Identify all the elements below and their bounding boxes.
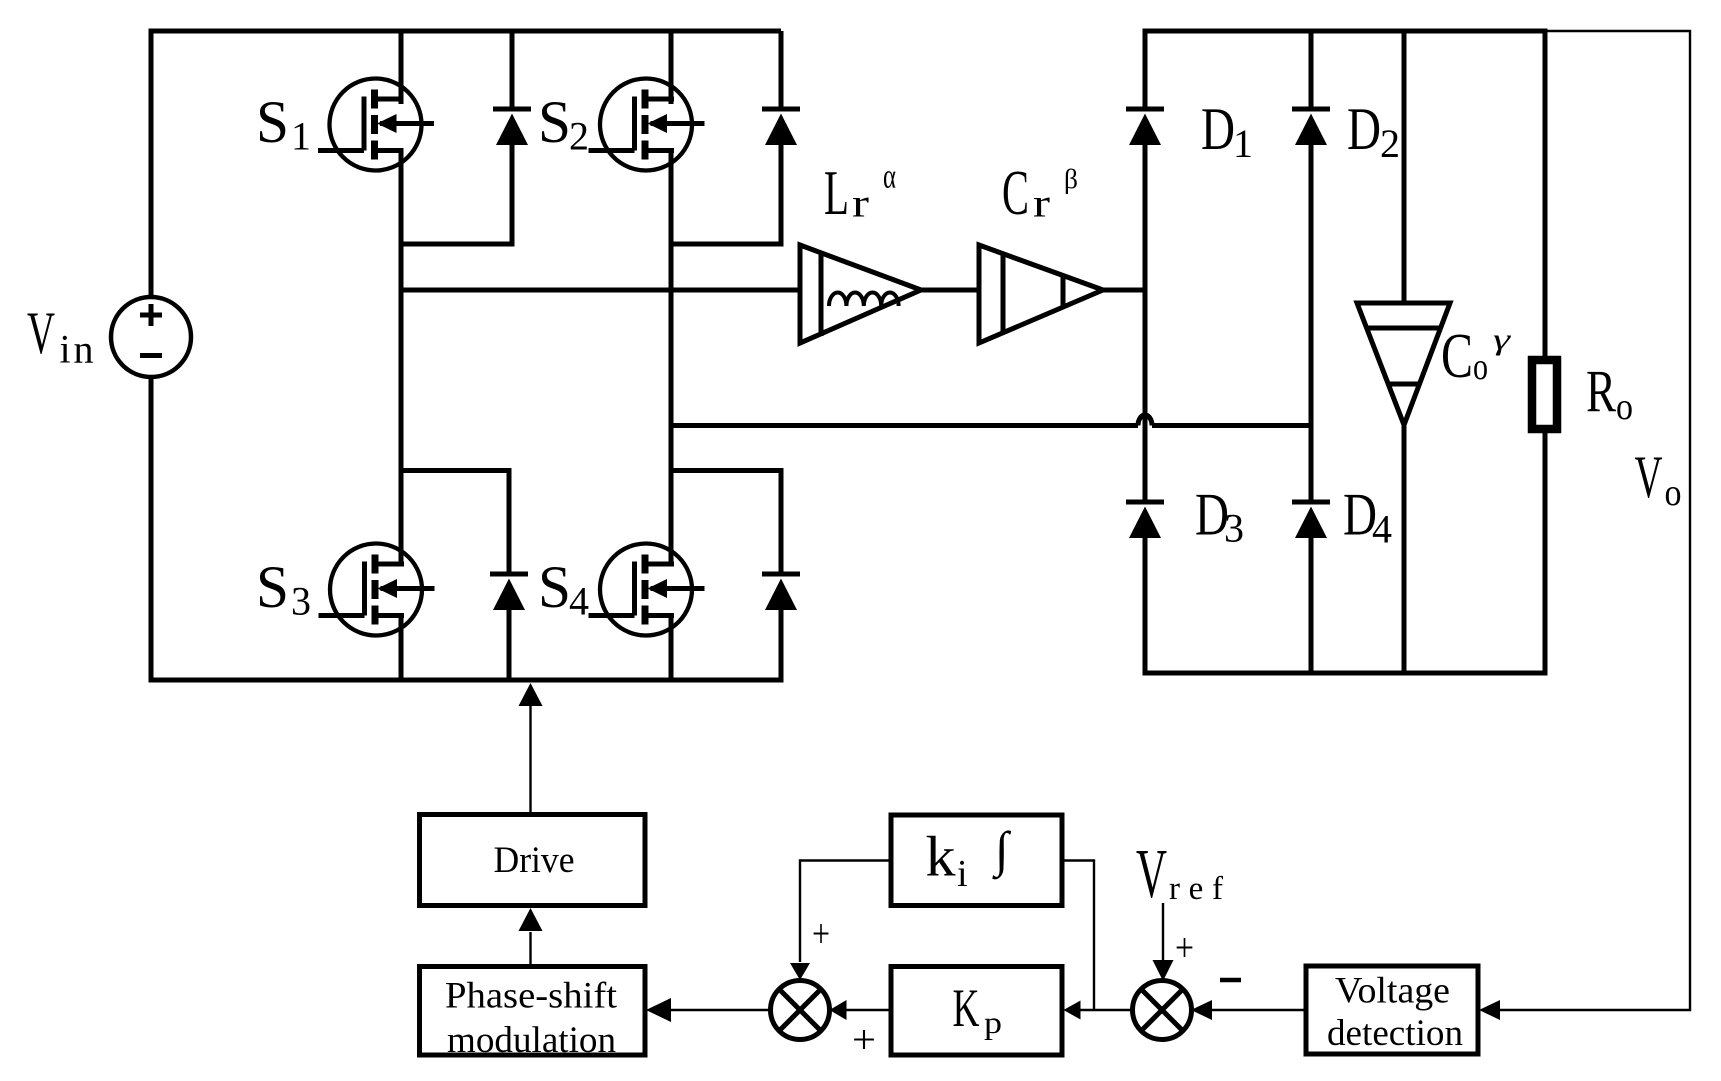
svg-text:γ: γ xyxy=(1493,323,1512,356)
block Drive xyxy=(420,815,646,906)
wire S4 source xyxy=(669,616,674,681)
antiparallel diode of S4 xyxy=(762,574,800,610)
wire Vin leg lower xyxy=(149,375,154,683)
svg-text:p: p xyxy=(984,1004,1002,1040)
svg-text:in: in xyxy=(60,327,94,372)
wire Co top lead xyxy=(1402,31,1407,305)
svg-text:C: C xyxy=(1002,157,1029,228)
svg-text:r: r xyxy=(852,181,869,226)
svg-text:o: o xyxy=(1665,472,1682,514)
wire E1 to Phase-shift block xyxy=(646,998,771,1022)
label D4 xyxy=(1343,482,1392,552)
svg-text:D: D xyxy=(1347,96,1381,162)
svg-text:K: K xyxy=(953,978,980,1038)
svg-text:S: S xyxy=(256,554,289,620)
wire S2 drain xyxy=(669,31,674,101)
mosfet S1 xyxy=(318,79,434,171)
capacitor Co (fractional-order symbol) xyxy=(1357,303,1450,425)
label S2 xyxy=(538,89,589,159)
svg-text:R: R xyxy=(1586,359,1616,425)
resistor Ro xyxy=(1532,360,1557,429)
svg-text:L: L xyxy=(824,158,849,228)
wire D1 cathode lead xyxy=(1143,31,1148,107)
voltage source Vin xyxy=(111,297,191,377)
antiparallel diode of S3 xyxy=(490,574,528,610)
wire node B return line right part xyxy=(1152,423,1311,428)
svg-text:Phase-shift: Phase-shift xyxy=(445,976,618,1017)
label minus at E2 right xyxy=(1220,978,1241,983)
wire Kp output to E1 xyxy=(830,1000,892,1020)
wire DS1 anode to S1 leg xyxy=(401,242,515,247)
wire bottom bus rectifier xyxy=(1143,671,1548,676)
label Vo xyxy=(1635,444,1682,514)
wire DS3 cathode to S3 leg xyxy=(401,468,512,473)
svg-text:Voltage: Voltage xyxy=(1335,971,1450,1012)
svg-text:4: 4 xyxy=(1372,507,1392,552)
antiparallel diode of S1 xyxy=(493,109,531,145)
svg-text:3: 3 xyxy=(1224,506,1244,551)
svg-text:k: k xyxy=(926,826,957,889)
label Ro xyxy=(1586,359,1633,429)
diode D2 xyxy=(1292,109,1330,145)
svg-text:V: V xyxy=(27,300,55,366)
svg-text:o: o xyxy=(1473,346,1488,388)
svg-text:1: 1 xyxy=(291,114,311,159)
svg-text:D: D xyxy=(1201,96,1235,162)
wire diode DS4 lower lead xyxy=(779,610,784,680)
wire S1-S3 leg xyxy=(399,151,404,567)
svg-text:S: S xyxy=(538,554,571,620)
summing junction E1 xyxy=(771,981,830,1040)
wire diode DS2 bottom lead xyxy=(779,145,784,247)
mosfet S2 xyxy=(589,79,705,171)
label Lr alpha xyxy=(824,157,896,229)
wire S3 source xyxy=(399,616,404,681)
arrow feedback into Voltage detection xyxy=(1479,1000,1500,1020)
svg-text:S: S xyxy=(256,89,289,155)
svg-text:detection: detection xyxy=(1327,1013,1463,1054)
svg-text:modulation: modulation xyxy=(447,1020,616,1061)
diode D1 xyxy=(1126,109,1164,145)
wire Vin leg upper xyxy=(149,29,154,300)
wire D1-D3 leg middle xyxy=(1143,145,1148,500)
label Cr beta xyxy=(1002,157,1078,228)
wire diode DS1 bottom lead xyxy=(510,145,515,247)
summing junction E2 xyxy=(1133,981,1192,1040)
wire top bus left bridge xyxy=(149,29,782,34)
wire Ro bottom lead xyxy=(1543,430,1548,673)
wire bottom bus left bridge xyxy=(149,678,784,683)
wire D4 lower lead xyxy=(1309,538,1314,673)
svg-text:3: 3 xyxy=(291,579,311,624)
wire D3 lower lead xyxy=(1143,538,1148,673)
wire Vref to E2 arrow xyxy=(1153,903,1174,981)
wire diode DS3 lower lead xyxy=(507,610,512,680)
svg-text:i: i xyxy=(957,853,968,895)
svg-text:+: + xyxy=(1175,925,1194,970)
wire node A to Lr (bridge left-leg midpoint to resonant tank) xyxy=(401,288,800,293)
svg-text:ref: ref xyxy=(1169,871,1223,907)
wire Lr to Cr xyxy=(921,288,981,293)
svg-text:V: V xyxy=(1136,836,1167,913)
label Vref xyxy=(1136,836,1223,913)
wire node B return line left part xyxy=(671,423,1138,428)
label D2 xyxy=(1347,96,1400,166)
wire S1 drain xyxy=(399,31,404,101)
wire top bus rectifier xyxy=(1143,29,1548,34)
wire output feedback Vo xyxy=(1500,31,1690,1010)
wire S2-S4 leg xyxy=(669,151,674,567)
wire Co bottom lead xyxy=(1402,423,1407,673)
wire DS4 cathode to S4 leg xyxy=(671,468,784,473)
antiparallel diode of S2 xyxy=(762,109,800,145)
svg-text:o: o xyxy=(1616,386,1633,428)
wire diode DS2 top lead xyxy=(779,31,784,107)
svg-text:r: r xyxy=(1033,181,1050,226)
svg-text:β: β xyxy=(1064,164,1078,194)
label Co gamma xyxy=(1441,321,1512,391)
capacitor Cr (fractional-order symbol) xyxy=(979,245,1103,343)
mosfet S4 xyxy=(589,544,705,636)
wire Phase-shift to Drive arrow xyxy=(519,908,543,966)
label S3 xyxy=(256,554,311,624)
block Voltage detection xyxy=(1306,966,1478,1054)
svg-text:α: α xyxy=(883,157,896,196)
svg-text:1: 1 xyxy=(1233,121,1253,166)
wire D2-D4 leg middle xyxy=(1309,145,1314,500)
wire diode DS1 top lead xyxy=(510,31,515,107)
svg-text:S: S xyxy=(538,89,571,155)
svg-text:+: + xyxy=(812,911,830,956)
block ki integrator xyxy=(891,815,1062,906)
label S1 xyxy=(256,89,311,159)
inductor Lr (fractional-order symbol) xyxy=(800,245,921,343)
block Phase-shift modulation xyxy=(420,967,646,1062)
svg-text:Drive: Drive xyxy=(494,840,575,881)
label D3 xyxy=(1195,482,1244,551)
block Kp xyxy=(891,967,1062,1056)
label S4 xyxy=(538,554,589,624)
svg-text:+: + xyxy=(852,1017,876,1062)
wire diode DS3 upper lead xyxy=(507,468,512,572)
wire diode DS4 upper lead xyxy=(779,468,784,572)
svg-text:2: 2 xyxy=(569,114,589,159)
wire Ro top lead xyxy=(1543,31,1548,358)
wire hop over D1-D3 leg xyxy=(1138,415,1152,425)
wire ki output to E1 xyxy=(790,861,891,981)
svg-text:V: V xyxy=(1635,444,1663,510)
diode D4 xyxy=(1292,502,1330,538)
mosfet S3 xyxy=(319,544,435,636)
label D1 xyxy=(1201,96,1253,166)
label Vin xyxy=(27,300,94,372)
wire E2 to Kp and ki branch xyxy=(1062,861,1133,1020)
svg-text:4: 4 xyxy=(569,579,589,624)
wire Drive to bridge arrow xyxy=(519,683,543,814)
wire Voltage detection to E2 xyxy=(1191,1000,1306,1020)
wire DS2 anode to S2 leg xyxy=(671,242,784,247)
svg-text:2: 2 xyxy=(1380,121,1400,166)
svg-text:C: C xyxy=(1441,321,1473,391)
diode D3 xyxy=(1126,502,1164,538)
wire D2 cathode lead xyxy=(1309,31,1314,107)
wire Cr to rectifier leg xyxy=(1103,288,1148,293)
